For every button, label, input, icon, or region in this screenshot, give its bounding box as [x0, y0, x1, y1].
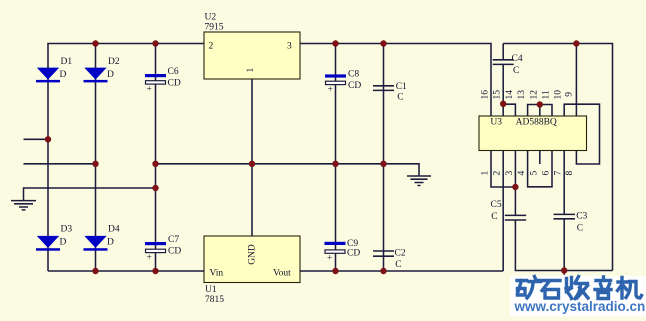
- node junction (155.5,188): [152, 185, 158, 191]
- svg-text:D: D: [60, 70, 67, 80]
- wire U3 pin7 to C3 top: [563, 151, 565, 215]
- wire top rail left (48,43.5)-(204,43.5) and D1/D3 vertical rail x=48: [48, 44, 204, 272]
- svg-text:7: 7: [554, 171, 564, 176]
- node junction (564.2,270.5): [561, 267, 567, 273]
- svg-text:2: 2: [209, 42, 214, 52]
- svg-text:C5: C5: [491, 200, 502, 210]
- wire C5 bottom lead and bottom right net to x=612.5: [515, 220, 612, 271]
- svg-text:C: C: [491, 212, 497, 222]
- op-amp U3 AD588BQ: [479, 116, 587, 151]
- svg-text:C6: C6: [168, 67, 179, 77]
- wire U3 pin2 vertical to bottom rail: [502, 151, 504, 272]
- wire D2/D4 vertical rail x=95.5: [95, 44, 97, 272]
- svg-text:GND: GND: [248, 244, 258, 265]
- diode D4: [84, 225, 120, 251]
- svg-text:2: 2: [493, 171, 503, 176]
- svg-text:+: +: [327, 254, 332, 264]
- capacitor C1: [373, 82, 407, 103]
- node junction (155.5,43.5): [152, 40, 158, 46]
- svg-text:CD: CD: [347, 248, 360, 258]
- svg-text:6: 6: [542, 171, 552, 176]
- node junction (95.5,43.5): [92, 40, 98, 46]
- svg-text:C7: C7: [168, 235, 179, 245]
- wire U3 pins 4-6 bracket: [528, 151, 552, 187]
- svg-text:D1: D1: [61, 57, 73, 67]
- wire U3 pin10 to pin8 loop around right side: [564, 104, 599, 164]
- svg-text:CD: CD: [168, 247, 181, 257]
- svg-text:+: +: [147, 253, 152, 263]
- node junction (335.5,163.8): [332, 161, 338, 167]
- svg-text:12: 12: [529, 90, 539, 100]
- svg-text:10: 10: [554, 90, 564, 100]
- svg-text:U3: U3: [490, 118, 502, 128]
- node junction (335.5,271): [332, 268, 338, 274]
- wire right upper net y=43.5 from C4 to x=612.5 and down to bottom right net: [503, 44, 612, 271]
- wire U3 pins 13-12-11 bracket: [528, 105, 552, 117]
- diode D3: [36, 225, 72, 251]
- diode D2: [84, 57, 120, 82]
- wire AC input stub 2 y=163.8: [24, 163, 96, 165]
- node junction (95.5,271): [92, 268, 98, 274]
- svg-text:13: 13: [517, 90, 527, 100]
- wire U2 pin1 to U1 GND vertical x=252: [251, 79, 253, 236]
- svg-text:www.crystalradio.cn: www.crystalradio.cn: [514, 299, 646, 314]
- wire U3 pin3 to C5 top: [514, 151, 516, 216]
- svg-text:8: 8: [565, 171, 575, 176]
- svg-text:C: C: [577, 223, 583, 233]
- diode D1: [36, 57, 72, 82]
- node junction (539.8,104.5): [537, 101, 543, 107]
- svg-text:16: 16: [481, 90, 491, 100]
- wire middle ground line y=163.8 to right ground: [156, 164, 420, 176]
- svg-text:C4: C4: [512, 54, 523, 64]
- wire C4 bottom lead to pins 15/14 bracket: [503, 65, 515, 116]
- wire C8/C9 vertical rail x=335.5: [335, 44, 337, 272]
- node junction (515.4,187): [512, 184, 518, 190]
- svg-text:CD: CD: [168, 79, 181, 89]
- svg-text:+: +: [147, 85, 152, 95]
- svg-text:C: C: [397, 93, 403, 103]
- svg-text:+: +: [328, 85, 333, 95]
- wire C1/C2 vertical rail x=383.5: [383, 44, 385, 272]
- svg-text:C: C: [395, 260, 401, 270]
- svg-text:CD: CD: [348, 81, 361, 91]
- svg-text:5: 5: [529, 171, 539, 176]
- node junction (48,139.3): [45, 136, 51, 142]
- svg-text:D2: D2: [108, 57, 120, 67]
- capacitor C7 (electrolytic): [145, 235, 181, 263]
- capacitor C3: [554, 212, 588, 234]
- wire top rail right (300,43.5)-(491,43.5) down to U3 pin16: [300, 44, 491, 117]
- wire left ground line y=188: [24, 188, 156, 200]
- wire C4 top lead: [502, 44, 504, 60]
- svg-text:C8: C8: [348, 70, 359, 80]
- svg-text:C1: C1: [396, 82, 407, 92]
- capacitor C4: [493, 54, 523, 76]
- wire bottom rail right (300,271)-(503.2,271): [300, 270, 503, 272]
- capacitor C6 (electrolytic): [145, 67, 181, 95]
- svg-text:1: 1: [246, 68, 256, 73]
- wire C3 bottom lead with stub below junction: [563, 219, 565, 275]
- svg-text:C: C: [513, 66, 519, 76]
- node junction (335.5,43.5): [332, 40, 338, 46]
- svg-text:1: 1: [481, 171, 491, 176]
- regulator U2 7915: [204, 12, 300, 79]
- wire U3 pin5 stub: [539, 151, 541, 165]
- node junction (383.5,43.5): [380, 40, 386, 46]
- svg-text:7915: 7915: [205, 22, 224, 32]
- node junction (383.5,271): [380, 268, 386, 274]
- capacitor C2: [373, 249, 406, 271]
- ground (left): [11, 201, 36, 210]
- svg-text:D: D: [107, 237, 114, 247]
- node junction (155.5,271): [152, 268, 158, 274]
- svg-text:C9: C9: [347, 239, 358, 249]
- node junction (252,163.8): [249, 161, 255, 167]
- svg-text:7815: 7815: [205, 295, 224, 305]
- svg-text:AD588BQ: AD588BQ: [516, 118, 557, 128]
- ground (right): [407, 176, 431, 186]
- svg-text:D: D: [60, 237, 67, 247]
- watermark background: [510, 276, 646, 317]
- svg-text:11: 11: [542, 90, 552, 99]
- wire AC input stub 1 y=139.3: [24, 138, 49, 140]
- wire U3 pin1 bracket to pin3: [491, 151, 515, 188]
- svg-text:Vout: Vout: [273, 268, 291, 278]
- svg-text:D4: D4: [108, 225, 120, 235]
- svg-text:15: 15: [493, 90, 503, 100]
- capacitor C8 (electrolytic): [325, 70, 361, 96]
- svg-text:Vin: Vin: [210, 268, 224, 278]
- svg-text:D: D: [107, 70, 114, 80]
- svg-text:4: 4: [517, 171, 527, 176]
- regulator U1 7815: [204, 236, 300, 305]
- node junction (155.5,163.8): [152, 161, 158, 167]
- node junction (95.5,163.8): [92, 161, 98, 167]
- node junction (383.5,163.8): [380, 161, 386, 167]
- svg-text:U2: U2: [205, 12, 217, 22]
- wire bottom rail left (48,271)-(204,271): [48, 270, 204, 272]
- node junction (503.2,103.8): [500, 101, 506, 107]
- wire U3 pin9 vertical: [575, 44, 577, 117]
- svg-text:3: 3: [505, 171, 515, 176]
- watermark chinese text (drawn strokes): [517, 277, 642, 299]
- capacitor C5: [491, 200, 527, 222]
- svg-text:U1: U1: [205, 285, 217, 295]
- svg-text:9: 9: [565, 92, 575, 97]
- wire C6/C7 vertical rail x=155.5: [155, 44, 157, 272]
- svg-text:C2: C2: [395, 249, 406, 259]
- svg-text:C3: C3: [576, 212, 587, 222]
- svg-text:3: 3: [287, 42, 292, 52]
- svg-text:D3: D3: [61, 225, 73, 235]
- capacitor C9 (electrolytic): [325, 239, 361, 264]
- svg-text:14: 14: [505, 90, 515, 100]
- node junction (576.4,43.5): [573, 40, 579, 46]
